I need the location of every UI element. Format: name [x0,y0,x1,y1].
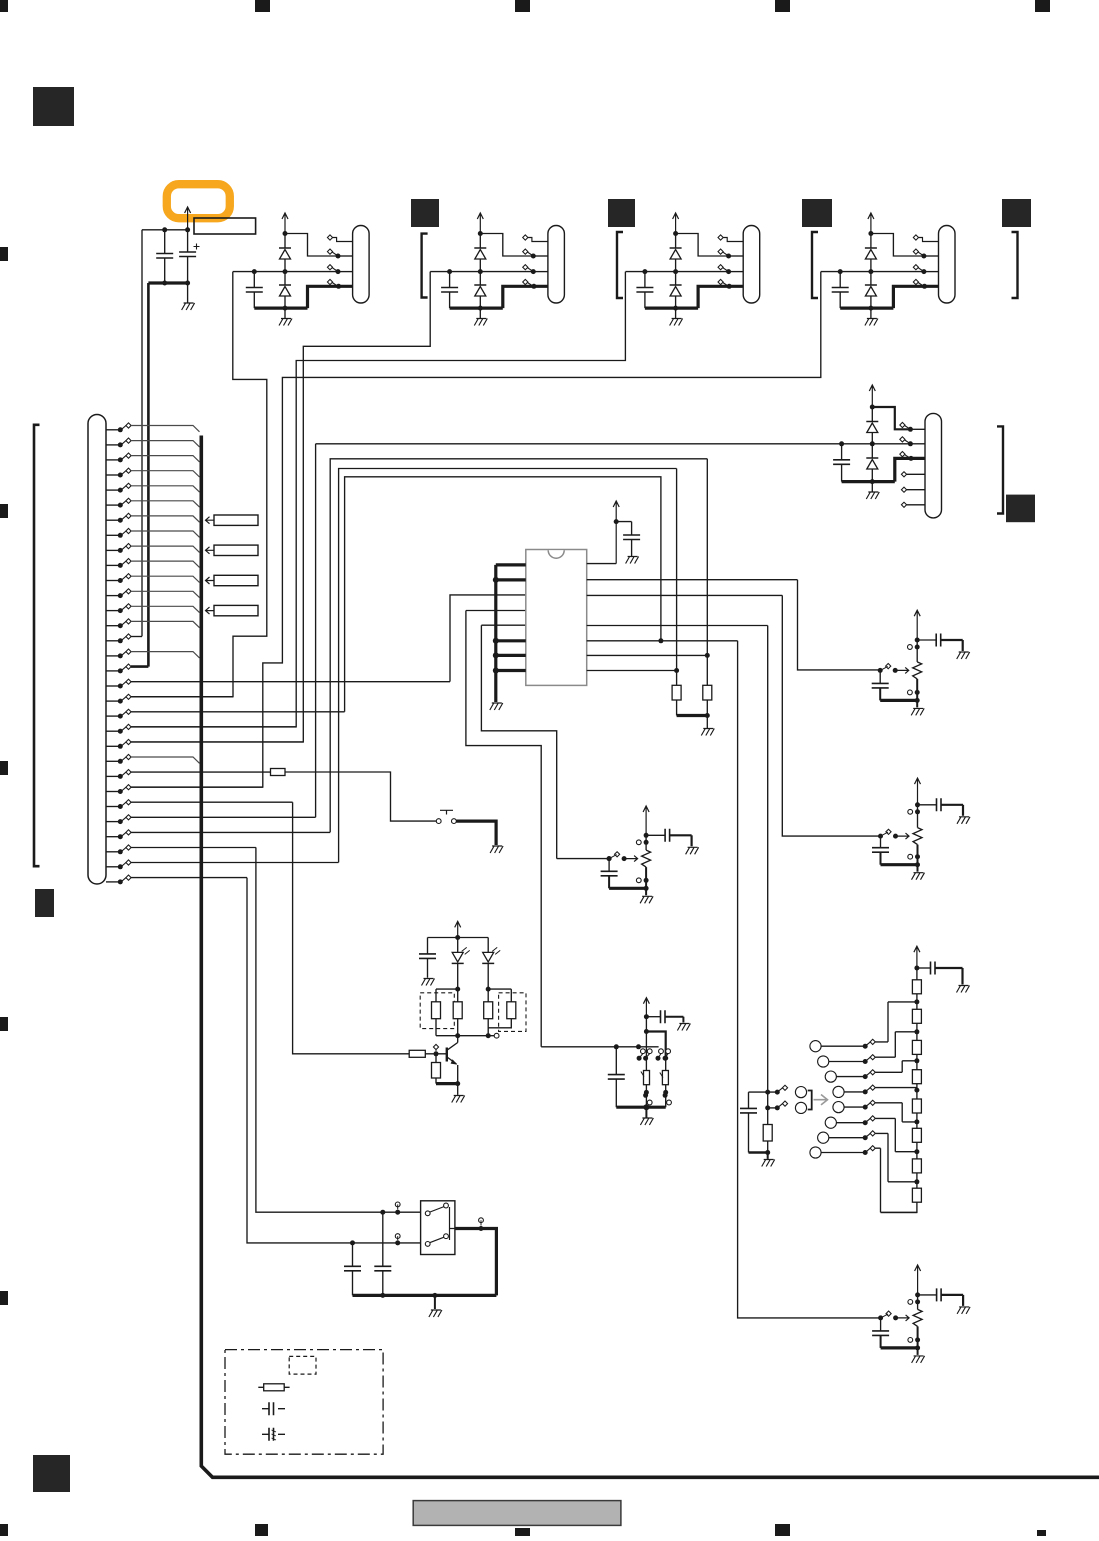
trimmer VR1 contact [908,690,920,695]
trimmer VR1 contact [908,645,920,650]
connector pin 21 [106,724,296,733]
registration mark left 3 [0,761,8,775]
ladder power arrow [914,946,920,968]
unit4 wire to ground [870,308,872,318]
indicator LED 1 [810,1002,917,1052]
cap led left [419,938,436,978]
resistor R-pin7 [703,459,712,716]
row2 power arrow [869,385,875,407]
keys cap left [608,1047,625,1107]
wire IC pin5 right [587,626,768,1093]
trimmer VR3 junction dot [644,886,649,891]
trimmer VR4 ground right [957,1307,970,1314]
keys contact dots [637,1056,668,1061]
resistor R-pin8 [672,469,681,716]
trimmer VR1 ground right [957,652,970,659]
unit1 wire main horizontal [233,271,338,273]
indicator LED 3 [825,1061,917,1082]
trimmer VR2 wire to ground [917,865,919,872]
junction dot [455,1081,460,1086]
trimmer VR4 contact [908,1337,920,1342]
unit3 junction dot [673,269,678,274]
ladder resistor chain [912,968,921,1202]
thick border bus [201,436,1099,1478]
trimmer VR4 contact [908,1299,920,1304]
transistor Q1 [447,1036,458,1084]
trimmer VR4 thick bottom bar [881,1346,918,1349]
wire row31 route [247,878,421,1243]
IC pin1 stub [496,563,526,566]
connector pin 3 (nc) [106,453,200,462]
unit1 junction dot [283,306,288,311]
unit4 pin3 hook [913,265,938,275]
keys resistor R2 [662,1071,668,1085]
wire left vertical A [141,230,143,637]
junction dot [162,227,167,232]
wire row28 route [330,459,707,833]
trimmer VR3 thick bottom bar [609,887,646,890]
trimmer VR4 wiper [878,1311,909,1321]
registration mark bottom 3 [515,1528,530,1536]
capacitor C-b polarized [179,230,199,283]
unit2 junction dot [447,269,452,274]
trimmer VR3 contact [636,878,648,883]
jack internal [450,1207,455,1240]
registration mark bottom 4 [775,1524,790,1536]
pair circle 2 [795,1102,806,1113]
ladder res bottom [763,1108,772,1153]
connector pin 6 (nc) [106,498,200,507]
connector pin 10 (nc) [106,559,200,568]
wire unit4 route [131,272,821,788]
trimmer VR2 contact [908,854,920,859]
wire left vertical B thick [147,283,150,667]
row2 pin3 hook [900,452,914,461]
connector pin 14 (nc) [106,619,200,628]
wire pin5 pair [749,1091,778,1093]
wire IC pin7 right [587,654,708,656]
pair arrow gray [814,1095,828,1105]
connector pin 1 (nc) [106,423,200,432]
row2 wire to ground [871,482,873,492]
registration mark top 1 [0,0,8,12]
wire IC pin2 right [587,580,881,670]
wire thick bar [148,281,187,284]
connector pin 5 (nc) [106,483,200,492]
trimmer VR3 contact [636,840,648,845]
unit4 junction dot [868,306,873,311]
unit4 pin2 hook [913,249,938,259]
wire [767,1153,769,1159]
keys power arrow [643,998,649,1017]
pair circle 1 [795,1087,806,1098]
wire thick emitter bar [436,1082,458,1085]
unit1 connector pill [353,226,370,304]
unit3 pin3 hook [718,265,743,275]
unit1 wire to ground [284,308,286,318]
junction dot [185,281,190,286]
junction dot [486,987,491,992]
unit2 wire thick bottom bar [450,307,503,310]
corner block bottom-left [33,1455,70,1492]
ladder pair ground [762,1160,775,1167]
junction dot [765,1105,770,1110]
unit3 ground [670,319,683,326]
unit3 junction dot [642,269,647,274]
resistor Rb [453,989,462,1036]
trimmer VR2 wiper [878,829,909,839]
unit4 wire step to pin2 [871,234,924,257]
row2 pin2 hook [900,437,925,447]
legend box [225,1350,383,1455]
ground decoupling [626,557,639,564]
unit4 wire main horizontal [821,271,924,273]
junction dot pin6/row20 [658,638,663,643]
connector pin 16 (nc) [106,649,200,658]
trimmer VR1 wire to ground [916,700,918,707]
junction dot [914,966,919,971]
trimmer VR3 wire [645,867,647,888]
trimmer VR1 cap to ground right [917,634,963,652]
trimmer VR4 wire [917,1295,919,1310]
jack pin bottom [425,1234,448,1247]
wire to ground [706,716,708,729]
registration mark left 5 [0,1291,8,1305]
connector pin 29 [106,845,256,854]
junction dot [614,1044,619,1049]
bracket before unit3 [617,232,623,298]
wire unit1 route [131,272,267,697]
jack output thick [455,1229,497,1296]
keys line [541,1046,658,1048]
unit1 pin4 hook [327,279,341,288]
keys wiper hooks [641,1072,663,1078]
unit1 diode D1 [279,234,291,272]
wire [767,1092,769,1108]
unit4 junction dot [838,269,843,274]
ground resistors [701,729,714,736]
LED D2 [482,938,500,990]
unit4 ground [865,319,878,326]
unit2 junction dot [478,231,483,236]
connector pin 25 [106,785,263,794]
IC U1 notch [548,550,564,558]
junction dot [636,1044,641,1049]
led power arrow [455,921,461,937]
connector pin 23 (nc) [106,754,200,763]
switch S1 bar [440,810,453,814]
trimmer VR2 wire [917,845,919,865]
connector pin 30 [106,860,339,869]
wire IC pin6 right [587,641,881,1318]
wire IC pin8 right [587,670,677,672]
wire jack in top [380,1202,400,1215]
ground led cap [422,979,435,986]
trimmer VR4 trimmer zigzag [913,1309,922,1326]
trimmer VR2 wire [917,805,919,828]
unit4 diode D1 [865,234,877,272]
registration mark bottom 5 [1037,1530,1046,1536]
wire unit2 route [131,272,430,742]
unit3 pin2 hook [718,249,743,259]
unit4 wire thick bottom bar [840,307,893,310]
trimmer VR1 ground [911,708,924,715]
unit2 wire main horizontal [430,271,533,273]
keys wire mid [646,1032,665,1071]
legend capacitor [262,1402,285,1415]
wire IC pin5 route [481,625,556,858]
row2 feed vertical [315,444,317,817]
indicator LED 7 [818,1131,917,1182]
unit3 wire thick step pin4 [698,286,743,308]
row2 wire step pin1 [872,407,910,429]
capacitor C-a [156,230,173,283]
ladder junction dot [914,1029,919,1034]
IC pin2 stub [493,577,526,583]
trimmer VR1 trimmer zigzag [913,662,922,679]
bracket row2 (closing) [997,426,1003,513]
indicator LED 6 [825,1116,917,1152]
unit3 junction dot [673,306,678,311]
unit2 capacitor [441,272,458,309]
registration mark top 2 [255,0,270,12]
ladder cap ground [957,986,970,993]
registration mark top 5 [1035,0,1050,12]
registration mark top 3 [515,0,530,12]
row2 junction dot [870,405,875,410]
row2 ground [866,492,879,499]
row2 junction dot [870,479,875,484]
wire jack in bottom [350,1234,400,1246]
jack pin top [425,1203,448,1216]
decoupling cap C [616,522,640,556]
connector pin 17 [106,664,148,673]
IC pin7 stub [493,652,526,658]
wire to ground [187,283,189,303]
ladder junction dot [914,1179,919,1184]
pair bracket [808,1091,812,1110]
connector CN pill [88,415,106,885]
unit1 ground [279,319,292,326]
wire thick resistor ground bar [677,714,708,717]
junction dot [765,1090,770,1095]
row2 pin1 hook [900,422,925,431]
ladder junction dot [914,1149,919,1154]
row2 pin5 nc [901,487,925,492]
trimmer VR4 wire to ground [917,1348,919,1355]
junction dot [663,1090,668,1095]
row2 junction dot [870,441,875,446]
ladder junction dot [914,999,919,1004]
junction dot [643,1104,649,1110]
signal label box 1 [214,515,258,525]
section block row2 [1006,495,1035,523]
wire base [425,1053,446,1055]
junction dot [432,1293,437,1298]
ladder cap right [917,962,963,985]
trimmer VR2 cap to ground right [918,798,964,816]
trimmer VR3 junction dot [644,833,649,838]
cap jack A [344,1243,361,1296]
block below connector [35,889,54,917]
junction dot [380,1293,385,1298]
junction dot [644,1090,649,1095]
connector pin 27 [106,815,316,824]
bracket before unit2 [422,234,428,298]
unit2 diode D1 [474,234,486,272]
trimmer VR1 junction dot [915,638,920,643]
row2 junction dot [839,441,844,446]
bracket before unit4 [812,232,818,298]
section block 3 [802,199,832,227]
wire pin5 cap [740,1092,757,1152]
wire to ground [457,1084,459,1095]
wire IC pin4 route [466,611,541,1047]
junction dot [486,1033,491,1038]
unit1 junction dot [252,269,257,274]
trimmer VR2 trimmer zigzag [913,828,922,845]
unit3 pin4 hook [718,279,732,288]
keys low contacts [643,1093,671,1105]
bracket left of connector [34,425,40,866]
wire pin5 cap bar [749,1151,768,1153]
signal label arrow 1 [206,517,215,524]
registration mark top 4 [775,0,790,12]
cap jack B [374,1212,391,1295]
corner block top-left [33,87,74,126]
keys thick bar [616,1106,665,1109]
unit3 wire thick bottom bar [645,307,698,310]
registration mark bottom 2 [255,1524,268,1536]
signal label arrow 2 [206,547,215,554]
junction dot pin8 [674,668,679,673]
bracket right of unit4 (closing) [1012,232,1018,298]
resistor Ra [432,989,458,1036]
legend trimmer capacitor [262,1428,285,1441]
unit1 pin1 hook [327,235,352,242]
unit3 pin1 hook [718,235,743,242]
connector pin 8 (nc) [106,528,200,537]
trimmer VR1 wire [916,679,918,701]
connector pin 4 (nc) [106,468,200,477]
junction dot [607,856,612,861]
wire IC pin top right [587,563,617,565]
unit4 pin4 hook [913,279,927,288]
trimmer VR1 thick bottom bar [880,699,917,702]
trimmer VR3 wire [645,835,647,850]
row2 diode D2 [866,444,878,482]
connector pin 24 [106,770,271,779]
pair contact 2 [768,1101,788,1110]
wire led bottom bar [436,1035,494,1037]
ladder junction dot [914,1119,919,1124]
junction dot [455,935,460,940]
unit3 capacitor [636,272,653,309]
unit4 power arrow unit [868,213,874,234]
keys contacts top [641,1049,671,1054]
unit3 diode D2 [670,272,682,309]
ground transistor [452,1096,465,1103]
trimmer VR1 cap left [872,670,889,700]
registration mark bottom 1 [0,1524,8,1536]
unit4 capacitor [832,272,849,309]
connector pin 22 [106,739,303,748]
unit2 junction dot [478,269,483,274]
keys cap right [646,1010,683,1023]
jack box [421,1201,455,1255]
unit4 pin1 hook [913,235,938,242]
registration mark left 2 [0,504,8,518]
trimmer VR3 cap left [601,859,618,889]
junction dot [644,1029,649,1034]
unit4 diode D2 [865,272,877,309]
keys cap ground [677,1024,690,1031]
unit3 wire main horizontal [626,271,729,273]
legend resistor [258,1384,289,1391]
connector pin 12 (nc) [106,589,200,598]
trimmer VR4 ground [912,1356,925,1363]
unit3 junction dot [673,231,678,236]
row2 thick step pin3 [895,458,925,481]
keys contact stubs [639,1054,668,1059]
unit3 wire step to pin2 [676,234,729,257]
junction dot [765,1150,770,1155]
resistor R base [409,1050,425,1057]
wire row24 to switch [285,772,436,821]
row2 capacitor [833,444,850,482]
indicator LED 4 [833,1085,917,1098]
unit4 connector pill [939,226,956,304]
ladder bottom [881,1202,917,1212]
wire row26 route [293,802,410,1054]
signal label arrow 4 [206,607,215,614]
wire row24 resistor [271,769,286,776]
unit3 connector pill [743,226,760,304]
power arrow topleft [185,207,191,230]
unit2 wire thick step pin4 [503,286,548,308]
unit3 power arrow unit [673,213,679,234]
ladder junction dot [914,1058,919,1063]
connector pin 2 (nc) [106,438,200,447]
junction dot [455,987,460,992]
trimmer VR2 thick bottom bar [881,863,918,866]
signal label arrow 3 [206,577,215,584]
unit1 pin2 hook [327,249,352,259]
unit1 wire step to pin2 [285,234,338,257]
row2 thick bar [842,480,895,483]
unit2 junction dot [478,306,483,311]
resistor Rc [484,989,493,1036]
keys resistor R1 [644,1071,650,1085]
junction dot [455,1033,460,1038]
wire row20 route [345,477,661,712]
unit1 pin3 hook [327,265,352,275]
trimmer VR4 cap to ground right [918,1288,964,1306]
unit3 diode D1 [670,234,682,272]
trimmer VR2 ground right [957,817,970,824]
keys branch thick [646,1017,665,1058]
trimmer VR4 cap left [872,1318,889,1348]
connector pin 26 [106,800,293,809]
wire topleft horizontal [142,229,188,231]
indicator LED 2 [818,1032,917,1067]
unit1 wire thick bottom bar [254,307,307,310]
connector pin 19 [106,694,233,703]
section block 4 [1002,199,1031,227]
switch S1 ground [490,846,503,853]
connector pin 20 [106,709,345,718]
connector pin 11 (nc) [106,574,200,583]
